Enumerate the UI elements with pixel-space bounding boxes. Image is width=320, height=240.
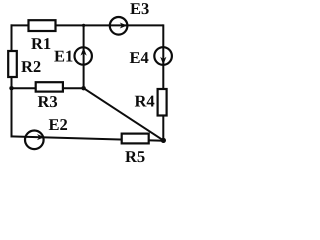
resistor R2 xyxy=(8,51,17,77)
label E3 xyxy=(130,3,148,14)
source E2 (circle) xyxy=(25,131,44,150)
source E3 (circle) xyxy=(110,17,128,35)
wire diagonal xyxy=(84,88,164,140)
wire middle horizontal (R3 branch) xyxy=(12,87,84,89)
label R2 xyxy=(21,61,40,72)
label R5 xyxy=(125,151,144,162)
label R1 xyxy=(31,38,50,49)
wire bottom border xyxy=(11,136,164,140)
resistor R1 xyxy=(29,20,56,31)
node junction top-middle xyxy=(82,24,85,27)
source E4 arrow (down) xyxy=(160,57,166,65)
source E4 (circle) xyxy=(154,47,172,65)
wire left border xyxy=(11,24,13,137)
node junction center xyxy=(81,86,85,90)
node junction left-middle xyxy=(9,86,13,90)
label E2 xyxy=(49,119,67,130)
resistor R5 xyxy=(122,134,149,144)
label R3 xyxy=(38,96,57,107)
resistor R4 xyxy=(158,89,167,116)
label E1 xyxy=(54,51,72,62)
source E1 (circle) xyxy=(75,47,92,64)
wire right border xyxy=(162,24,164,140)
node junction bottom-right xyxy=(161,138,166,143)
label R4 xyxy=(135,96,155,107)
resistor R3 xyxy=(36,82,63,91)
source E1 arrow (up) xyxy=(81,48,87,56)
label E4 xyxy=(130,52,149,63)
wire middle vertical (E1 branch) xyxy=(83,25,85,88)
source E3 arrow (right) xyxy=(120,23,128,29)
wire top border xyxy=(11,24,164,26)
source E2 arrow (right) xyxy=(37,134,45,140)
